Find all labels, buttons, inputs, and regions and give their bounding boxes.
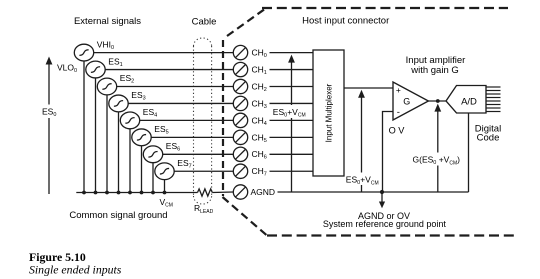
- wire ES3 to CH3: [128, 102, 233, 104]
- wire CH7 to multiplexer: [270, 170, 314, 172]
- label ES0+VCM node B: [345, 173, 379, 187]
- wire ES6 to ground bus: [152, 162, 154, 192]
- label CH6: [252, 149, 267, 161]
- host connector boundary left edge: [222, 40, 224, 196]
- label O V: [389, 125, 406, 135]
- source ES6: [143, 146, 162, 163]
- wire CH0 to multiplexer: [270, 52, 314, 54]
- label VLO0: [57, 63, 77, 75]
- label G(ES0+VCM): [412, 153, 466, 167]
- label Input amplifier with gain G: [406, 55, 466, 76]
- source VHI0: [74, 44, 93, 61]
- label ES4: [143, 107, 157, 119]
- junction dot ES2 ground: [105, 191, 109, 195]
- source ES5: [132, 129, 151, 146]
- source ES3: [109, 95, 128, 112]
- svg-text:A/D: A/D: [461, 97, 477, 108]
- label AGND or OV: [358, 211, 410, 221]
- wire ES2 to CH2: [116, 86, 233, 88]
- label ES6: [166, 141, 180, 153]
- wire RLEAD to AGND pin: [212, 191, 233, 194]
- label VHI0: [97, 39, 114, 51]
- arrow to system reference ground: [379, 192, 385, 208]
- junction dot ES1 ground: [94, 191, 98, 195]
- A/D converter U3: [446, 86, 486, 114]
- label AGND: [251, 187, 276, 197]
- connector pin CH1: [233, 62, 247, 76]
- connector pin CH5: [233, 130, 247, 144]
- label System reference ground point: [323, 219, 447, 229]
- multiplexer U1: [313, 50, 344, 176]
- label CH2: [252, 81, 267, 93]
- svg-text:with gain G: with gain G: [410, 65, 459, 76]
- connector pin AGND: [233, 185, 247, 199]
- wire A/D ground return: [468, 113, 470, 192]
- cable shield outline: [194, 38, 212, 204]
- label ES5: [154, 124, 168, 136]
- op-amp U2 gain G: [393, 82, 428, 120]
- wire CH3 to multiplexer: [270, 102, 314, 104]
- wire ES2 to ground bus: [106, 95, 108, 193]
- label CH1: [252, 64, 267, 76]
- svg-text:Host input connector: Host input connector: [302, 16, 389, 27]
- svg-text:O V: O V: [389, 125, 406, 135]
- wire ES4 to ground bus: [129, 129, 131, 193]
- label Digital Code: [475, 124, 501, 144]
- connector pin CH4: [233, 113, 247, 127]
- wire CH4 to multiplexer: [270, 119, 314, 121]
- wire op-amp inverting input to ground: [383, 112, 394, 193]
- resistor RLEAD: [198, 189, 213, 196]
- junction dot ES7 ground: [163, 191, 167, 195]
- connector pin CH0: [233, 45, 247, 59]
- wire ES6 to CH6: [162, 153, 233, 155]
- svg-text:Common signal ground: Common signal ground: [69, 210, 167, 221]
- svg-text:+: +: [396, 85, 401, 95]
- host connector boundary bottom diagonal: [223, 197, 268, 236]
- arrow ES0+VCM at multiplexer input: [288, 55, 295, 193]
- host connector boundary top diagonal: [227, 9, 266, 37]
- junction dot ES6 ground: [151, 191, 155, 195]
- junction dot VHI0 ground: [82, 191, 86, 195]
- wire ES7 to CH7: [174, 170, 234, 172]
- connector pin CH3: [233, 96, 247, 110]
- label CH3: [252, 98, 267, 110]
- label CH0: [252, 48, 267, 60]
- wire ES4 to CH4: [139, 119, 233, 121]
- host connector boundary top edge: [262, 7, 508, 9]
- source ES7: [155, 163, 174, 180]
- label ES2: [120, 73, 134, 85]
- label ES1: [108, 56, 122, 68]
- arrow G(ES0+VCM) at op-amp output: [434, 104, 441, 192]
- connector pin CH7: [233, 164, 247, 178]
- svg-text:Input Multiplexer: Input Multiplexer: [325, 83, 334, 142]
- label CH5: [252, 132, 267, 144]
- junction dot system ground: [380, 190, 384, 194]
- label RLEAD: [194, 203, 214, 215]
- source ES1: [86, 61, 105, 78]
- svg-text:Cable: Cable: [192, 17, 217, 28]
- svg-text:Code: Code: [477, 133, 500, 144]
- label ES0: [41, 105, 58, 119]
- label VCM: [160, 197, 173, 209]
- label ES7: [177, 158, 191, 170]
- junction dot ES3 ground: [117, 191, 121, 195]
- A/D digital output bus pins: [486, 87, 501, 112]
- wire ES3 to ground bus: [118, 112, 120, 193]
- wire VHI0 to ground bus: [83, 61, 85, 193]
- svg-text:-: -: [397, 107, 400, 118]
- ground bus wire: [76, 192, 197, 194]
- label ES3: [131, 90, 145, 102]
- arrow ES0+VCM at op-amp input: [358, 90, 365, 192]
- wire CH5 to multiplexer: [270, 136, 314, 138]
- label Cable: [192, 17, 217, 28]
- wire multiplexer to op-amp: [344, 87, 393, 89]
- label Common signal ground: [69, 210, 167, 221]
- junction dot ES4 ground: [128, 191, 132, 195]
- connector pin CH2: [233, 79, 247, 93]
- wire ES5 to CH5: [151, 136, 234, 138]
- caption Single ended inputs: [29, 263, 122, 277]
- wire CH1 to multiplexer: [270, 69, 314, 71]
- source ES4: [120, 112, 139, 129]
- svg-text:System reference ground point: System reference ground point: [323, 219, 447, 229]
- wire ES5 to ground bus: [141, 145, 143, 192]
- host connector boundary bottom edge: [267, 234, 515, 236]
- svg-text:AGND: AGND: [251, 187, 276, 197]
- wire VHI0 to CH0: [93, 52, 233, 54]
- wire op-amp output to A/D: [428, 100, 447, 102]
- wire AGND bus: [278, 191, 469, 193]
- wire ES7 to ground bus: [164, 179, 166, 192]
- label CH7: [252, 166, 267, 178]
- wire CH6 to multiplexer: [270, 153, 314, 155]
- ES0 measurement arrow: [46, 57, 53, 195]
- label External signals: [74, 16, 141, 27]
- svg-text:Single ended inputs: Single ended inputs: [29, 263, 122, 277]
- label Host input connector: [302, 16, 389, 27]
- wire ES1 to ground bus: [95, 78, 97, 193]
- caption Figure 5.10: [29, 250, 86, 264]
- source ES2: [97, 78, 116, 95]
- junction dot ES5 ground: [140, 191, 144, 195]
- wire CH2 to multiplexer: [270, 86, 314, 88]
- svg-text:G: G: [403, 96, 410, 106]
- connector pin CH6: [233, 147, 247, 161]
- svg-text:External signals: External signals: [74, 16, 141, 27]
- junction dot op-amp output: [436, 99, 440, 103]
- label CH4: [252, 115, 267, 127]
- wire ES1 to CH1: [105, 69, 234, 71]
- label ES0+VCM node A: [272, 105, 307, 119]
